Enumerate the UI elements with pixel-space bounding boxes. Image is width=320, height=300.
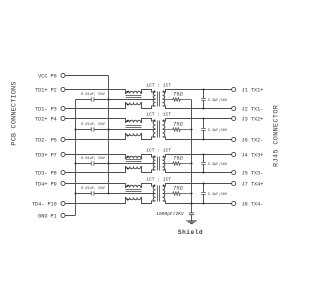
transformer T4 core bbox=[158, 186, 160, 202]
svg-text:3.3pF,50V: 3.3pF,50V bbox=[208, 99, 228, 103]
svg-text:J1 TX1+: J1 TX1+ bbox=[242, 87, 264, 93]
junction cap C5 bottom bbox=[202, 107, 204, 109]
resistor R4 75 ohm bbox=[163, 192, 192, 195]
transformer T2 core bbox=[158, 121, 160, 138]
choke L3 top winding bbox=[126, 156, 141, 158]
capacitor C8 3.3pF bbox=[203, 184, 205, 204]
junction cap C8 bottom bbox=[202, 202, 204, 204]
junction VCC rail ch2 bbox=[107, 128, 109, 130]
choke L2 core bbox=[126, 126, 142, 128]
svg-text:TD4+ P9: TD4+ P9 bbox=[35, 181, 57, 187]
choke L2 top phase dot bbox=[127, 120, 129, 122]
wire secondary top to J ch2 bbox=[163, 119, 232, 122]
transformer T3 primary phase dot bbox=[153, 156, 155, 158]
svg-text:TD4- P10: TD4- P10 bbox=[32, 201, 57, 207]
wire center-tap feed ch4 (GND rail to cap) bbox=[76, 193, 92, 195]
capacitor C7 3.3pF bbox=[203, 155, 205, 173]
terminal P1 (GND) bbox=[61, 213, 65, 217]
transformer T3 secondary winding bbox=[163, 157, 165, 170]
svg-text:TD2- P5: TD2- P5 bbox=[35, 137, 57, 143]
capacitor C3 0.01uF plates bbox=[91, 161, 94, 165]
junction GND rail ch2 bbox=[74, 128, 76, 130]
svg-text:3.3pF,50V: 3.3pF,50V bbox=[208, 129, 228, 133]
wire center-tap feed ch3 (cap to primary CT) bbox=[94, 163, 156, 165]
junction cap C5 top bbox=[202, 88, 204, 90]
wire center-tap feed ch1 (cap to primary CT) bbox=[94, 99, 156, 101]
choke L3 bottom phase dot bbox=[127, 167, 129, 169]
transformer T2 secondary phase dot bbox=[163, 120, 165, 122]
transformer T3 secondary phase dot bbox=[163, 156, 165, 158]
choke L3 top phase dot bbox=[127, 156, 129, 158]
choke L1 bottom winding bbox=[126, 103, 141, 105]
wire secondary bottom to J ch3 bbox=[163, 170, 232, 173]
transformer T2 secondary winding bbox=[163, 121, 165, 137]
wire TD3- lead bbox=[65, 167, 156, 173]
svg-text:0.01uF, 50V: 0.01uF, 50V bbox=[81, 157, 106, 161]
wire GND to rail bbox=[65, 215, 76, 217]
terminal J3 bbox=[232, 116, 236, 120]
junction cap C8 top bbox=[202, 182, 204, 184]
wire TD1+ lead bbox=[65, 90, 156, 94]
transformer T2 primary phase dot bbox=[153, 120, 155, 122]
svg-text:J3 TX2+: J3 TX2+ bbox=[242, 116, 264, 122]
svg-text:0.01uF, 50V: 0.01uF, 50V bbox=[81, 123, 106, 127]
transformer T4 secondary phase dot bbox=[163, 185, 165, 187]
capacitor C4 0.01uF plates bbox=[91, 191, 94, 195]
terminal P2 (TD1+) bbox=[61, 87, 65, 91]
choke L1 top winding bbox=[126, 91, 141, 93]
wire TD3+ lead bbox=[65, 155, 156, 159]
terminal J2 bbox=[232, 106, 236, 110]
junction VCC rail ch3 bbox=[107, 162, 109, 164]
svg-text:1CT : 1CT: 1CT : 1CT bbox=[146, 177, 171, 183]
svg-text:1CT : 1CT: 1CT : 1CT bbox=[146, 112, 171, 118]
svg-text:3.3pF,50V: 3.3pF,50V bbox=[208, 163, 228, 167]
resistor R1 75 ohm bbox=[163, 98, 192, 101]
wire TD4+ lead bbox=[65, 184, 156, 188]
junction cap C6 bottom bbox=[202, 138, 204, 140]
wire VCC to rail bbox=[65, 75, 109, 77]
svg-text:J5 TX3-: J5 TX3- bbox=[242, 170, 264, 176]
choke L4 top winding bbox=[126, 185, 141, 187]
wire secondary top to J ch1 bbox=[163, 90, 232, 93]
svg-text:TD2+ P4: TD2+ P4 bbox=[35, 116, 57, 122]
junction VCC rail ch4 bbox=[107, 192, 109, 194]
wire TD1- lead bbox=[65, 103, 156, 109]
shield termination rail bbox=[191, 100, 193, 213]
svg-text:TD3- P8: TD3- P8 bbox=[35, 170, 57, 176]
transformer T1 core bbox=[158, 92, 160, 107]
choke L4 top phase dot bbox=[127, 185, 129, 187]
terminal J7 bbox=[232, 181, 236, 185]
transformer T1 primary phase dot bbox=[153, 91, 155, 93]
capacitor C6 3.3pF bbox=[203, 119, 205, 140]
svg-text:1000pF/2KV: 1000pF/2KV bbox=[156, 211, 184, 217]
resistor R2 75 ohm bbox=[163, 128, 192, 131]
capacitor C9 1000pF/2KV plates bbox=[189, 213, 194, 215]
resistor R3 75 ohm bbox=[163, 162, 192, 165]
svg-text:J2 TX1-: J2 TX1- bbox=[242, 106, 264, 112]
svg-text:PCB CONNECTIONS: PCB CONNECTIONS bbox=[10, 81, 18, 145]
wire secondary top to J ch3 bbox=[163, 155, 232, 158]
svg-text:75Ω: 75Ω bbox=[173, 156, 183, 162]
GND rail bbox=[75, 100, 77, 216]
wire center-tap feed ch2 (cap to primary CT) bbox=[94, 129, 156, 131]
choke L4 core bbox=[126, 190, 142, 192]
terminal P4 (TD2+) bbox=[61, 116, 65, 120]
wire cap C9 to ground bbox=[191, 215, 193, 221]
wire center-tap feed ch4 (cap to primary CT) bbox=[94, 193, 156, 195]
choke L1 core bbox=[126, 96, 142, 98]
transformer T4 secondary winding bbox=[163, 186, 165, 201]
transformer T2 primary winding bbox=[153, 121, 155, 137]
junction VCC rail ch1 bbox=[107, 98, 109, 100]
junction GND rail ch3 bbox=[74, 162, 76, 164]
terminal J6 bbox=[232, 137, 236, 141]
wire TD4- lead bbox=[65, 198, 156, 204]
wire TD2+ lead bbox=[65, 119, 156, 123]
junction rail at J8 line bbox=[190, 202, 192, 204]
transformer T1 secondary winding bbox=[163, 92, 165, 106]
capacitor C5 3.3pF bbox=[203, 90, 205, 109]
svg-text:1CT : 1CT: 1CT : 1CT bbox=[146, 148, 171, 154]
svg-text:75Ω: 75Ω bbox=[173, 186, 183, 192]
terminal P5 (TD2-) bbox=[61, 137, 65, 141]
terminal P3 (TD1-) bbox=[61, 106, 65, 110]
terminal J1 bbox=[232, 87, 236, 91]
choke L2 bottom phase dot bbox=[127, 134, 129, 136]
wire secondary bottom to J ch2 bbox=[163, 137, 232, 140]
svg-text:J7 TX4+: J7 TX4+ bbox=[242, 181, 264, 187]
svg-text:Shield: Shield bbox=[178, 229, 203, 236]
wire center-tap feed ch3 (GND rail to cap) bbox=[76, 163, 92, 165]
svg-text:TD1- P3: TD1- P3 bbox=[35, 106, 57, 112]
choke L4 bottom phase dot bbox=[127, 198, 129, 200]
svg-text:75Ω: 75Ω bbox=[173, 92, 183, 98]
svg-text:0.01uF, 50V: 0.01uF, 50V bbox=[81, 187, 106, 191]
choke L1 top phase dot bbox=[127, 91, 129, 93]
terminal P6 (VCC) bbox=[61, 73, 65, 77]
terminal J4 bbox=[232, 152, 236, 156]
junction cap C7 top bbox=[202, 153, 204, 155]
capacitor C2 0.01uF plates bbox=[91, 127, 94, 131]
wire TD2- lead bbox=[65, 134, 156, 140]
terminal J5 bbox=[232, 170, 236, 174]
wire secondary bottom to J ch1 bbox=[163, 106, 232, 109]
transformer T4 primary phase dot bbox=[153, 185, 155, 187]
wire secondary top to J ch4 bbox=[163, 184, 232, 187]
terminal P9 (TD4+) bbox=[61, 181, 65, 185]
svg-text:RJ45 CONNECTOR: RJ45 CONNECTOR bbox=[273, 105, 281, 167]
terminal P7 (TD3+) bbox=[61, 152, 65, 156]
choke L2 top winding bbox=[126, 120, 141, 122]
wire secondary bottom to J ch4 bbox=[163, 201, 232, 204]
choke L3 core bbox=[126, 160, 142, 162]
terminal J8 bbox=[232, 201, 236, 205]
svg-text:1CT : 1CT: 1CT : 1CT bbox=[146, 83, 171, 89]
terminal P8 (TD3-) bbox=[61, 170, 65, 174]
junction resistor R4 to rail bbox=[190, 192, 192, 194]
transformer T3 primary winding bbox=[153, 157, 155, 170]
transformer T4 primary winding bbox=[153, 186, 155, 201]
svg-text:75Ω: 75Ω bbox=[173, 122, 183, 128]
transformer T1 secondary phase dot bbox=[163, 91, 165, 93]
svg-text:J4 TX3+: J4 TX3+ bbox=[242, 152, 264, 158]
svg-text:TD1+ P2: TD1+ P2 bbox=[35, 87, 57, 93]
choke L4 bottom winding bbox=[126, 198, 141, 200]
wire center-tap feed ch1 (GND rail to cap) bbox=[76, 99, 92, 101]
choke L1 bottom phase dot bbox=[127, 103, 129, 105]
junction cap C6 top bbox=[202, 117, 204, 119]
choke L3 bottom winding bbox=[126, 167, 141, 169]
svg-text:J6 TX2-: J6 TX2- bbox=[242, 137, 264, 143]
svg-text:TD3+ P7: TD3+ P7 bbox=[35, 152, 57, 158]
terminal P10 (TD4-) bbox=[61, 201, 65, 205]
junction resistor R2 to rail bbox=[190, 128, 192, 130]
choke L2 bottom winding bbox=[126, 134, 141, 136]
junction resistor R3 to rail bbox=[190, 162, 192, 164]
svg-text:3.3pF,50V: 3.3pF,50V bbox=[208, 193, 228, 197]
svg-text:GND P1: GND P1 bbox=[38, 213, 57, 219]
VCC center-tap rail bbox=[108, 76, 110, 194]
svg-text:J8 TX4-: J8 TX4- bbox=[242, 201, 264, 207]
wire center-tap feed ch2 (GND rail to cap) bbox=[76, 129, 92, 131]
ground (shield) symbol bbox=[186, 221, 196, 224]
svg-text:0.01uF, 50V: 0.01uF, 50V bbox=[81, 93, 106, 97]
capacitor C1 0.01uF plates bbox=[91, 97, 94, 101]
transformer T1 primary winding bbox=[153, 92, 155, 106]
junction GND rail ch4 bbox=[74, 192, 76, 194]
junction cap C7 bottom bbox=[202, 171, 204, 173]
transformer T3 core bbox=[158, 157, 160, 171]
svg-text:VCC P6: VCC P6 bbox=[38, 73, 57, 79]
